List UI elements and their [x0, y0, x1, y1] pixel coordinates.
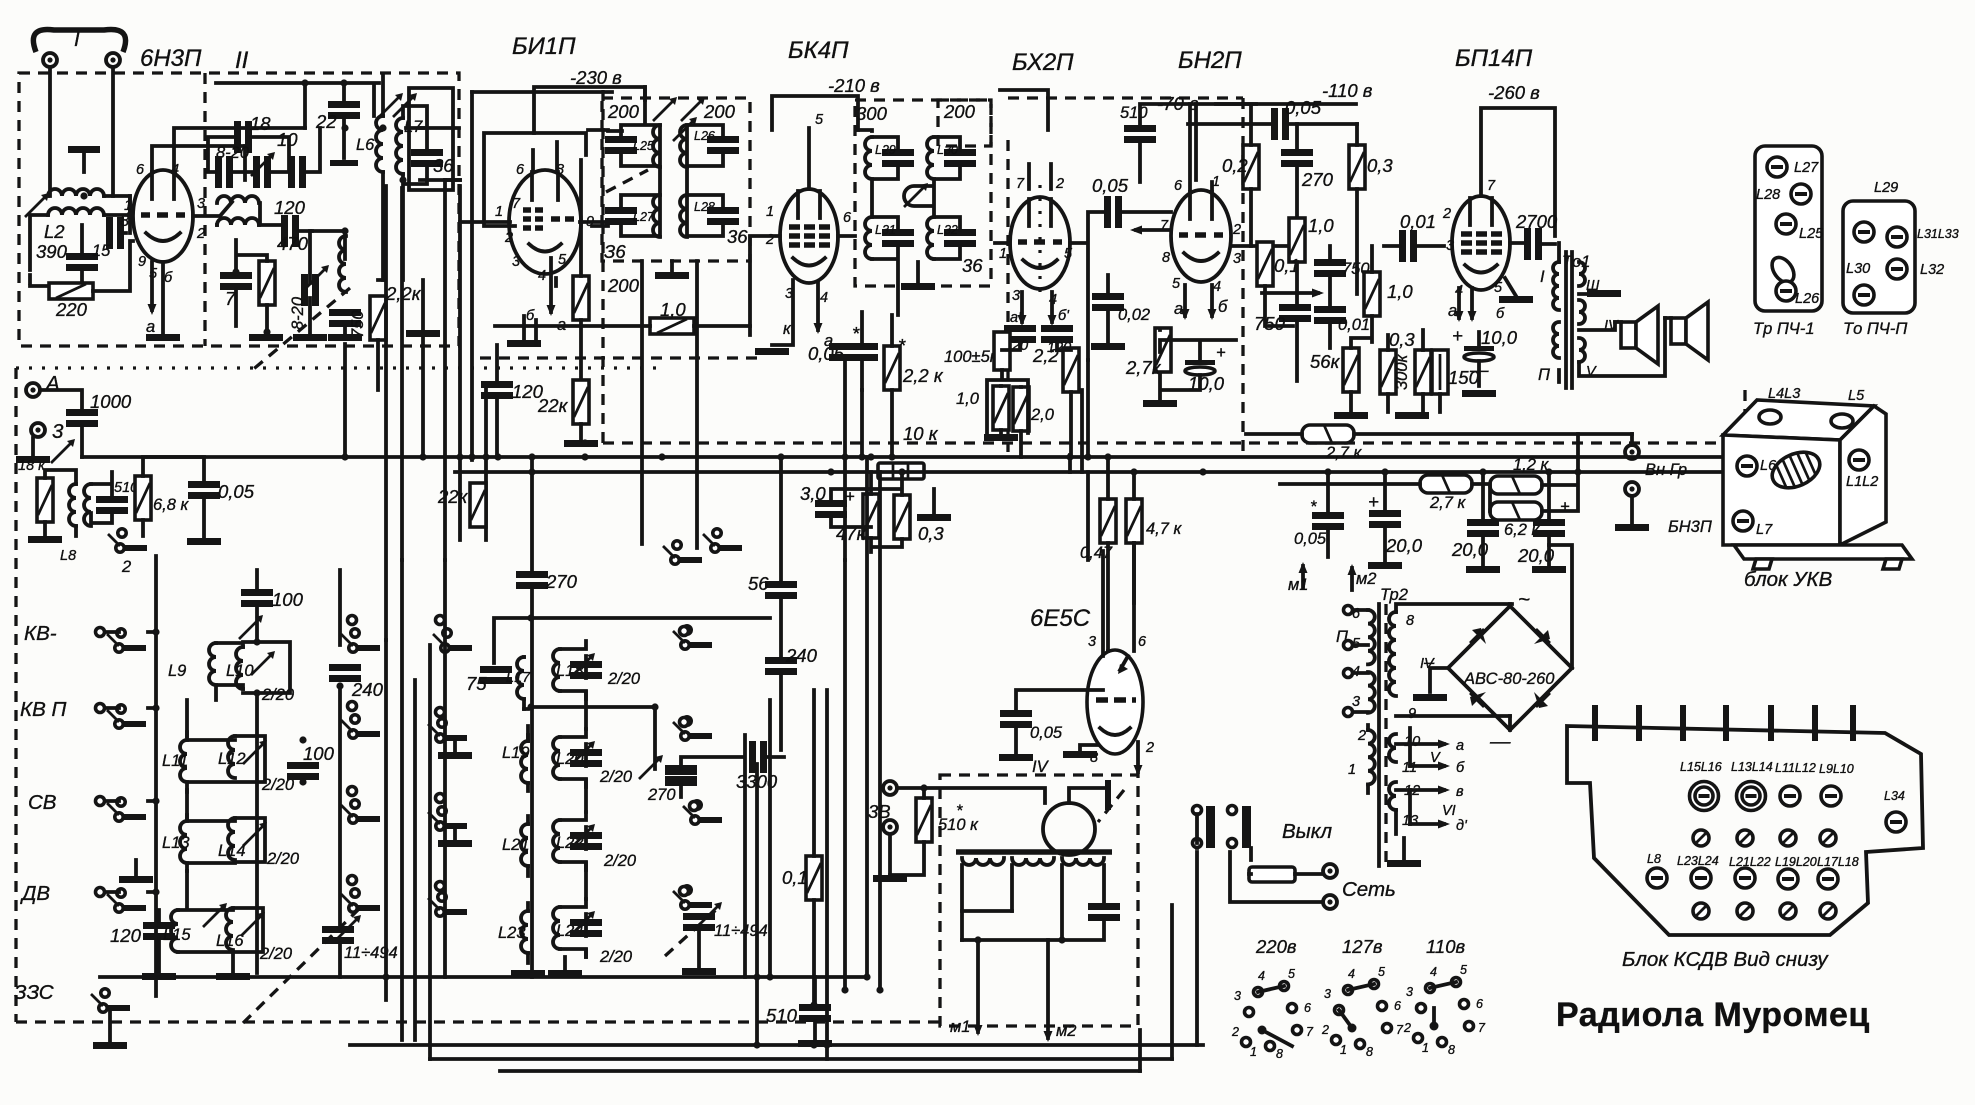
- svg-text:L26: L26: [1795, 291, 1820, 307]
- trim arrow L12: [243, 740, 267, 764]
- frame L9L10: [216, 642, 290, 700]
- dashed detector box: [1008, 98, 1243, 452]
- svg-text:*: *: [956, 802, 963, 820]
- pin 3: [1680, 705, 1686, 741]
- ground VnGr: [1630, 496, 1634, 524]
- svg-text:д': д': [1456, 818, 1468, 834]
- switch KV1: [107, 629, 146, 652]
- svg-text:АВС-80-260: АВС-80-260: [1463, 670, 1555, 688]
- svg-text:18: 18: [250, 113, 271, 134]
- dashed IF can box 1: [602, 98, 750, 261]
- svg-text:1: 1: [1250, 1045, 1257, 1059]
- svg-text:1,0: 1,0: [1308, 215, 1334, 236]
- lever switch col row4: [341, 889, 380, 912]
- gang dash diagonal: [1098, 790, 1124, 822]
- svg-text:+: +: [1452, 325, 1463, 346]
- rod taps: [962, 865, 1104, 940]
- trimmer arrow L15: [203, 903, 227, 927]
- dashed box converter: [19, 73, 459, 346]
- svg-text:0,3: 0,3: [1389, 329, 1415, 350]
- resistor 0.3 low: [1380, 350, 1396, 394]
- trim arrow L18: [571, 653, 595, 677]
- svg-text:6Е5С: 6Е5С: [1030, 605, 1091, 632]
- wire heater drops: [536, 278, 556, 344]
- capacitor 0.01 coupling: [1399, 230, 1417, 262]
- wires top: [143, 457, 204, 536]
- svg-text:а: а: [1174, 300, 1183, 318]
- bridge rectifier diamond: [1448, 606, 1572, 730]
- primary winding I: [1553, 262, 1559, 310]
- svg-text:L11: L11: [162, 752, 188, 770]
- svg-text:L7: L7: [1756, 522, 1773, 538]
- svg-text:5: 5: [1064, 246, 1073, 262]
- ground 510: [798, 1040, 832, 1047]
- coil L12: [228, 736, 235, 778]
- series trimmer caps: [215, 156, 233, 188]
- electrolytic 20.0 third: [1533, 519, 1565, 537]
- trimmer arrow on L2: [25, 193, 49, 217]
- wire vertical 0.05 to bus: [860, 390, 864, 457]
- wires band jacks: [105, 632, 156, 892]
- wires switch: [1197, 814, 1323, 874]
- secondary winding III: [1579, 262, 1585, 286]
- svg-text:1,0: 1,0: [660, 299, 686, 320]
- diode plate wires: [995, 164, 1085, 243]
- ground cathode: [1143, 400, 1177, 407]
- capacitor 75: [480, 666, 512, 684]
- wire 220 to cathode: [93, 241, 133, 291]
- frame L15L16: [159, 908, 263, 973]
- common vertical: [530, 457, 534, 977]
- wire vertical L7 to bus: [421, 334, 425, 457]
- vertical feed wires: [460, 92, 486, 540]
- svg-text:0,05: 0,05: [1030, 724, 1063, 742]
- wire top feed: [1000, 90, 1048, 130]
- variable cap 11-494: [322, 926, 354, 944]
- svg-text:а: а: [146, 318, 155, 336]
- svg-text:2: 2: [1232, 222, 1241, 238]
- screw L7: [1733, 511, 1753, 531]
- wires AGC: [831, 472, 902, 552]
- switch pairs col: [433, 629, 472, 652]
- resistor 2.2k star: [884, 346, 900, 390]
- svg-text:м2: м2: [1356, 570, 1377, 588]
- wire 100: [255, 570, 259, 642]
- switch KV2: [107, 705, 146, 728]
- svg-text:1,2 к: 1,2 к: [1513, 456, 1550, 474]
- wire vertical 445 upper: [443, 180, 447, 560]
- jack Set 1: [1323, 864, 1337, 878]
- selector 110: [1403, 963, 1486, 1057]
- tap circles: [1344, 606, 1353, 615]
- ground mid: [119, 876, 153, 883]
- svg-text:8: 8: [1366, 1045, 1373, 1059]
- lever switch col row1: [341, 629, 380, 652]
- coupling coil upper: [217, 196, 259, 203]
- capacitor 0.01: [1314, 306, 1346, 324]
- svg-text:БН2П: БН2П: [1178, 47, 1242, 74]
- resistor osc 750: [370, 296, 386, 340]
- top hole 1: [1759, 410, 1781, 424]
- svg-text:2: 2: [1145, 740, 1154, 756]
- svg-text:0,05: 0,05: [1092, 175, 1129, 196]
- svg-text:3: 3: [512, 254, 520, 270]
- svg-text:L32: L32: [1920, 262, 1944, 278]
- svg-text:2/20: 2/20: [599, 768, 633, 786]
- resistor 0.1: [1257, 242, 1273, 286]
- resistor 150: [1432, 350, 1448, 394]
- svg-text:7: 7: [1016, 176, 1025, 192]
- screw row2 right: [1887, 259, 1907, 279]
- svg-text:-110 в: -110 в: [1322, 80, 1373, 101]
- svg-text:270: 270: [647, 786, 676, 804]
- svg-text:56: 56: [748, 573, 769, 594]
- terminal Z jack: [31, 423, 45, 437]
- screw row3 c: [1735, 868, 1755, 888]
- wire -70 rail down: [1196, 104, 1256, 180]
- svg-text:L11L12: L11L12: [1775, 761, 1816, 775]
- svg-text:6: 6: [1304, 1001, 1311, 1015]
- svg-text:2,7 к: 2,7 к: [1325, 444, 1363, 462]
- frame L11L12: [187, 732, 265, 792]
- svg-text:4: 4: [1348, 967, 1355, 981]
- dashed IF can box 2: [855, 100, 991, 286]
- small dashed box 200: [938, 100, 991, 146]
- cap L25: [605, 136, 637, 154]
- wire vertical 386 long: [384, 186, 388, 640]
- svg-text:2700: 2700: [1515, 211, 1558, 232]
- svg-text:L28: L28: [1756, 187, 1780, 203]
- svg-text:8: 8: [1406, 613, 1414, 629]
- svg-text:2: 2: [121, 558, 131, 576]
- screw 3: [1780, 786, 1800, 806]
- svg-text:8: 8: [1448, 1043, 1455, 1057]
- svg-text:Радиола Муромец: Радиола Муромец: [1556, 996, 1870, 1034]
- wire grid frame: [484, 133, 586, 226]
- wires ZV: [890, 788, 1045, 875]
- svg-text:L23L24: L23L24: [1677, 854, 1719, 868]
- svg-text:3В: 3В: [868, 801, 891, 822]
- diode top-right: [1534, 630, 1550, 644]
- coil L31: [865, 217, 872, 259]
- svg-text:120: 120: [110, 925, 142, 946]
- capacitor 510: [1124, 125, 1156, 143]
- gang dashed second: [665, 908, 718, 956]
- svg-text:4: 4: [1430, 965, 1437, 979]
- svg-text:в: в: [1456, 784, 1464, 800]
- svg-text:7: 7: [512, 196, 521, 212]
- capacitor 750: [329, 309, 361, 327]
- main left vertical: [154, 556, 158, 996]
- capsule 1.2k: [1490, 476, 1542, 494]
- svg-text:L30: L30: [937, 143, 958, 157]
- ground 0.05: [999, 754, 1033, 761]
- wire L6 L7: [383, 76, 427, 280]
- switch DV: [107, 889, 146, 912]
- vertical wires bank: [187, 560, 415, 1040]
- svg-text:1,0: 1,0: [956, 390, 980, 408]
- svg-text:блок УКВ: блок УКВ: [1744, 568, 1832, 591]
- svg-text:L1L2: L1L2: [1846, 474, 1878, 490]
- gang dashed diagonal II: [250, 288, 350, 372]
- wire 0.02: [1106, 275, 1110, 343]
- resistor pot 1.0: [993, 386, 1009, 430]
- output transformer core: [1564, 252, 1568, 388]
- screw bottom: [1854, 285, 1874, 305]
- ground L16: [216, 973, 250, 980]
- svg-text:а: а: [1448, 302, 1457, 320]
- slash screw row2 c: [1780, 830, 1796, 846]
- can Tr PCh-2 box: [1843, 201, 1915, 313]
- svg-text:*: *: [852, 323, 860, 344]
- switch SV: [107, 798, 146, 821]
- svg-text:9: 9: [1408, 706, 1416, 722]
- wire grounds: [163, 231, 378, 390]
- screw L27: [1767, 157, 1787, 177]
- selector 127: [1321, 965, 1404, 1059]
- capacitor 0.05: [1312, 512, 1344, 530]
- ground L24: [548, 970, 582, 977]
- wire top link II: [216, 83, 379, 158]
- UKV box front face: [1723, 435, 1840, 545]
- coil L9: [209, 643, 216, 685]
- svg-text:6Н3П: 6Н3П: [140, 45, 202, 72]
- svg-text:L8: L8: [1647, 852, 1661, 866]
- resistor 0.3: [1349, 145, 1365, 189]
- svg-text:II: II: [235, 47, 249, 74]
- diode top-left: [1472, 628, 1486, 644]
- svg-text:I: I: [74, 28, 80, 51]
- secondary winding VI: [1389, 782, 1396, 810]
- pin 4: [1723, 705, 1729, 741]
- trim arrow L14: [243, 822, 267, 846]
- wire A to cap: [40, 390, 82, 457]
- grid 2 wire right: [193, 214, 220, 218]
- ground ZV: [888, 835, 892, 875]
- feeder wire bank top: [494, 618, 770, 769]
- svg-text:4: 4: [1258, 969, 1265, 983]
- wire 200 down: [579, 160, 583, 384]
- gang arrows: [379, 93, 403, 117]
- center vertical wires: [745, 457, 880, 1059]
- ground 18k: [28, 536, 62, 543]
- svg-text:11÷494: 11÷494: [344, 944, 398, 962]
- svg-text:Тр2: Тр2: [1380, 586, 1408, 604]
- screw row3 a: [1647, 868, 1667, 888]
- dashed divider: [203, 73, 206, 346]
- wire 2.2k: [890, 315, 894, 457]
- wire -230 into can: [588, 128, 608, 132]
- svg-text:200: 200: [943, 101, 976, 122]
- frame L13L14: [187, 815, 265, 871]
- tap wires join: [962, 911, 1104, 940]
- coil L22: [553, 820, 560, 862]
- arrow M1: [1301, 566, 1305, 588]
- screw row1 left: [1854, 222, 1874, 242]
- antenna jack 1: [43, 53, 57, 67]
- coil L8 b: [84, 484, 91, 526]
- ground 11-494: [682, 968, 716, 975]
- svg-text:2: 2: [1357, 728, 1366, 744]
- coil L1: [48, 189, 104, 196]
- resistor 0.47: [1100, 499, 1116, 543]
- svg-text:L6: L6: [356, 136, 375, 154]
- svg-text:510: 510: [1120, 104, 1148, 122]
- cap L32: [944, 229, 976, 247]
- jack ZV 2: [883, 820, 897, 834]
- svg-text:КВ-: КВ-: [24, 622, 57, 645]
- frame L19L20: [528, 729, 586, 791]
- wire primary: [1557, 243, 1561, 382]
- arrow M1: [976, 940, 980, 1032]
- capacitor 270: [1281, 149, 1313, 167]
- pin 7: [1850, 705, 1856, 741]
- svg-text:L21L22: L21L22: [1729, 855, 1771, 869]
- svg-text:L13L14: L13L14: [1731, 760, 1773, 774]
- svg-text:5: 5: [558, 252, 567, 268]
- cap L18: [570, 661, 602, 679]
- primary taps: [1352, 610, 1368, 793]
- svg-text:ДВ: ДВ: [20, 882, 50, 905]
- wire -230 rail: [534, 87, 645, 133]
- resistor 1.0 pot: [1289, 218, 1305, 262]
- capacitor 18: [234, 121, 252, 153]
- svg-text:б': б': [1058, 308, 1070, 324]
- trim arrow L24: [571, 911, 595, 935]
- frame L17L18: [524, 641, 586, 709]
- trim arrow L20: [571, 741, 595, 765]
- tube V5 6N2P: [1171, 190, 1231, 282]
- dashed band box left edge: [14, 368, 17, 1022]
- wire 470 top: [236, 240, 267, 331]
- svg-text:БК4П: БК4П: [788, 37, 849, 64]
- plate wire right: [1231, 244, 1291, 248]
- svg-text:6: 6: [1476, 997, 1483, 1011]
- svg-text:9: 9: [138, 254, 146, 270]
- svg-text:0,05: 0,05: [1285, 97, 1322, 118]
- svg-text:1: 1: [1340, 1043, 1347, 1057]
- svg-text:2/20: 2/20: [266, 850, 300, 868]
- svg-text:270: 270: [1301, 169, 1334, 190]
- svg-text:I: I: [1540, 268, 1545, 286]
- arrow k: [639, 755, 663, 779]
- svg-text:L31: L31: [875, 223, 896, 237]
- switch contact 2: [108, 529, 147, 552]
- grid wire left: [460, 142, 557, 222]
- svg-text:8: 8: [1162, 250, 1170, 266]
- cap L28: [707, 207, 739, 225]
- ferrite rod: [956, 849, 1112, 855]
- lever switch col row2: [341, 715, 380, 738]
- capacitor 390: [66, 253, 98, 271]
- UKV box top face: [1723, 400, 1874, 440]
- slash screw row2 d: [1820, 830, 1836, 846]
- wire 6E5C col riser: [1086, 360, 1090, 560]
- svg-text:б: б: [1456, 760, 1465, 776]
- wire 0.2: [1216, 104, 1356, 246]
- cap L27: [605, 207, 637, 225]
- svg-text:Tр ПЧ-1: Tр ПЧ-1: [1753, 320, 1815, 338]
- svg-text:3: 3: [1352, 694, 1360, 710]
- gang arrows cans: [653, 97, 677, 121]
- coil capsule L26: [1768, 253, 1799, 286]
- capacitor 0.05 top: [1271, 108, 1289, 140]
- coil L19: [521, 741, 528, 783]
- svg-text:7: 7: [1306, 1025, 1314, 1039]
- svg-text:к: к: [783, 320, 792, 338]
- svg-text:1: 1: [1422, 1041, 1429, 1055]
- svg-text:б: б: [1218, 298, 1228, 316]
- ground bridge: [1413, 694, 1447, 701]
- wire coupling: [1384, 244, 1444, 248]
- resistor 1.0 right: [1364, 272, 1380, 316]
- wire plate to cap: [1510, 243, 1555, 244]
- svg-text:0,1: 0,1: [782, 867, 808, 888]
- dashed band box bottom edge: [16, 1020, 940, 1023]
- svg-text:L5: L5: [1848, 388, 1865, 404]
- svg-text:2,7 к: 2,7 к: [1429, 494, 1467, 512]
- resistor 4.7k: [1126, 499, 1142, 543]
- svg-text:б: б: [1496, 306, 1505, 322]
- svg-text:-260 в: -260 в: [1488, 82, 1540, 103]
- wire 6I1P anode to can: [592, 224, 608, 228]
- slash screw row2 a: [1693, 830, 1709, 846]
- capacitor 3300: [749, 741, 767, 773]
- slash screw row2 b: [1737, 830, 1753, 846]
- wire resistor 1.0: [495, 324, 750, 328]
- cathode arc: [1100, 728, 1130, 735]
- svg-text:0,01: 0,01: [1338, 316, 1370, 334]
- svg-text:220: 220: [55, 299, 88, 320]
- jack Set 2: [1323, 895, 1337, 909]
- svg-text:240: 240: [785, 645, 818, 666]
- svg-text:м1: м1: [1288, 576, 1309, 594]
- transformer ground: [1402, 838, 1406, 860]
- band jack KV1: [96, 628, 105, 637]
- wire horizontal top link II: [445, 178, 460, 182]
- anode wires: [1190, 104, 1212, 190]
- wire set2: [1230, 852, 1323, 902]
- screw L1L2: [1849, 450, 1869, 470]
- arrow a': [1020, 292, 1024, 322]
- slash screw row4 c: [1780, 903, 1796, 919]
- wire 2.7k diag: [1246, 432, 1632, 436]
- cap L24: [570, 919, 602, 937]
- capacitor 36: [411, 149, 443, 167]
- svg-text:10 к: 10 к: [903, 423, 939, 444]
- coil L8 a: [69, 484, 76, 526]
- dashed chassis line: [603, 441, 1745, 444]
- svg-text:0,3: 0,3: [1367, 155, 1393, 176]
- svg-text:L19L20: L19L20: [1775, 855, 1817, 869]
- capacitor 0.05: [1000, 710, 1032, 728]
- tube V7 6E5C: [1087, 650, 1143, 754]
- wires detector loads: [987, 342, 1082, 472]
- diode bottom-right: [1534, 692, 1548, 708]
- resistor 470: [259, 261, 275, 305]
- secondary winding V: [1579, 338, 1585, 362]
- capacitor 750 lower: [1279, 304, 1311, 322]
- wire VnGr up: [1630, 434, 1634, 445]
- pin 1: [1592, 705, 1598, 741]
- svg-text:L9: L9: [168, 662, 186, 680]
- UKV box right face: [1840, 406, 1886, 545]
- svg-text:4: 4: [820, 290, 828, 306]
- svg-text:750: 750: [1254, 313, 1286, 334]
- ferrite antenna dashed box: [940, 775, 1138, 1026]
- coil L30: [927, 137, 934, 179]
- screw L26: [1776, 281, 1796, 301]
